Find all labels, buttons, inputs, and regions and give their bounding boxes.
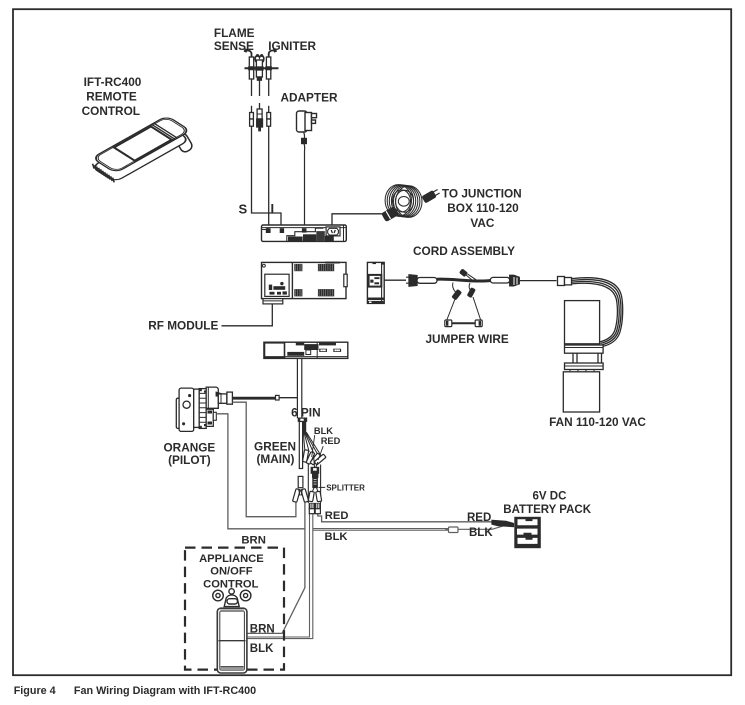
svg-text:Figure 4: Figure 4 — [14, 685, 56, 697]
svg-text:VAC: VAC — [470, 216, 495, 230]
svg-text:RF MODULE: RF MODULE — [148, 319, 218, 333]
svg-text:CORD ASSEMBLY: CORD ASSEMBLY — [413, 244, 515, 258]
svg-text:(MAIN): (MAIN) — [256, 452, 294, 466]
svg-text:BLK: BLK — [325, 531, 348, 543]
svg-text:BRN: BRN — [241, 534, 265, 546]
svg-text:ADAPTER: ADAPTER — [281, 91, 339, 105]
svg-text:FAN 110-120 VAC: FAN 110-120 VAC — [549, 415, 646, 429]
svg-text:CONTROL: CONTROL — [82, 104, 140, 118]
svg-text:BRN: BRN — [250, 624, 275, 636]
svg-text:BLK: BLK — [469, 527, 493, 539]
svg-text:RED: RED — [321, 436, 341, 446]
svg-text:BATTERY PACK: BATTERY PACK — [503, 504, 591, 516]
svg-text:JUMPER WIRE: JUMPER WIRE — [426, 332, 509, 346]
svg-text:RED: RED — [325, 510, 349, 522]
svg-text:REMOTE: REMOTE — [86, 89, 137, 103]
svg-text:RED: RED — [467, 512, 491, 524]
svg-text:6 PIN: 6 PIN — [291, 406, 321, 420]
svg-text:(PILOT): (PILOT) — [168, 453, 211, 467]
svg-text:BLK: BLK — [314, 426, 333, 436]
svg-text:IFT-RC400: IFT-RC400 — [84, 75, 142, 89]
svg-text:FLAME: FLAME — [214, 26, 255, 40]
svg-text:6V DC: 6V DC — [533, 491, 567, 503]
svg-text:BLK: BLK — [250, 643, 274, 655]
svg-text:BOX 110-120: BOX 110-120 — [447, 201, 519, 215]
svg-text:TO JUNCTION: TO JUNCTION — [442, 187, 522, 201]
svg-text:SPLITTER: SPLITTER — [326, 484, 365, 493]
svg-text:S: S — [239, 201, 248, 216]
svg-text:Fan Wiring Diagram with IFT-RC: Fan Wiring Diagram with IFT-RC400 — [74, 685, 256, 697]
svg-text:ON/OFF: ON/OFF — [210, 565, 252, 577]
svg-text:APPLIANCE: APPLIANCE — [199, 553, 264, 565]
svg-text:I: I — [271, 201, 275, 216]
